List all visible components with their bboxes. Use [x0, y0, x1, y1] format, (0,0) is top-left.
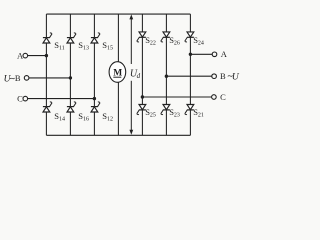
- thyristor S23: [161, 105, 170, 115]
- wire right phase B tap: [166, 75, 211, 77]
- thyristor S26: [161, 32, 170, 42]
- node junction C-right: [141, 95, 144, 98]
- thyristor S14: [43, 102, 52, 112]
- wire bottom DC bus: [46, 134, 190, 136]
- wire motor to bottom bus: [117, 82, 119, 135]
- wire motor to top bus: [117, 14, 119, 62]
- wire column 4 (phase C leg, right bridge): [141, 14, 143, 135]
- node junction A-left: [45, 54, 48, 57]
- wire column 3 (phase C leg, left bridge): [93, 14, 95, 135]
- wire column 2 (phase B leg, left bridge): [69, 14, 71, 135]
- terminal circle B left: [24, 76, 29, 81]
- wire left phase B tap: [29, 77, 71, 79]
- svg-text:B: B: [220, 71, 226, 81]
- thyristor S13: [67, 33, 76, 43]
- thyristor S15: [91, 33, 100, 43]
- wire left phase A tap: [28, 55, 47, 57]
- node junction B-left: [69, 76, 72, 79]
- wire column 5 (phase B leg, right bridge): [165, 14, 167, 135]
- thyristor S11: [43, 33, 52, 43]
- terminal circle B right: [212, 74, 217, 79]
- svg-text:A: A: [221, 49, 228, 59]
- terminal circle C left: [23, 96, 28, 101]
- node junction B-right: [165, 75, 168, 78]
- wire column 6 (phase A leg, right bridge): [189, 14, 191, 135]
- wire left phase C tap: [28, 98, 95, 100]
- Ud arrow lower segment with down arrowhead: [130, 81, 132, 133]
- node junction A-right: [189, 53, 192, 56]
- motor M: [109, 62, 126, 83]
- Ud arrow upper segment with up arrowhead: [130, 17, 132, 65]
- thyristor S21: [185, 105, 194, 115]
- terminal circle A right: [212, 52, 217, 57]
- svg-text:U: U: [232, 73, 240, 83]
- svg-text:C: C: [220, 92, 226, 102]
- wire right phase A tap: [190, 53, 212, 55]
- wire top DC bus: [46, 13, 190, 15]
- thyristor S12: [91, 102, 100, 112]
- thyristor S24: [185, 32, 194, 42]
- thyristor S25: [137, 105, 146, 115]
- svg-text:A: A: [17, 50, 24, 60]
- svg-text:C: C: [17, 94, 23, 104]
- svg-text:d: d: [137, 72, 141, 80]
- svg-text:B: B: [15, 73, 21, 83]
- wire right phase C tap: [142, 96, 211, 98]
- thyristor S16: [67, 102, 76, 112]
- thyristor S22: [137, 32, 146, 42]
- terminal circle A left: [23, 53, 28, 58]
- node junction C-left: [93, 97, 96, 100]
- wire column 1 (phase A leg, left bridge): [45, 14, 47, 135]
- terminal circle C right: [212, 95, 217, 100]
